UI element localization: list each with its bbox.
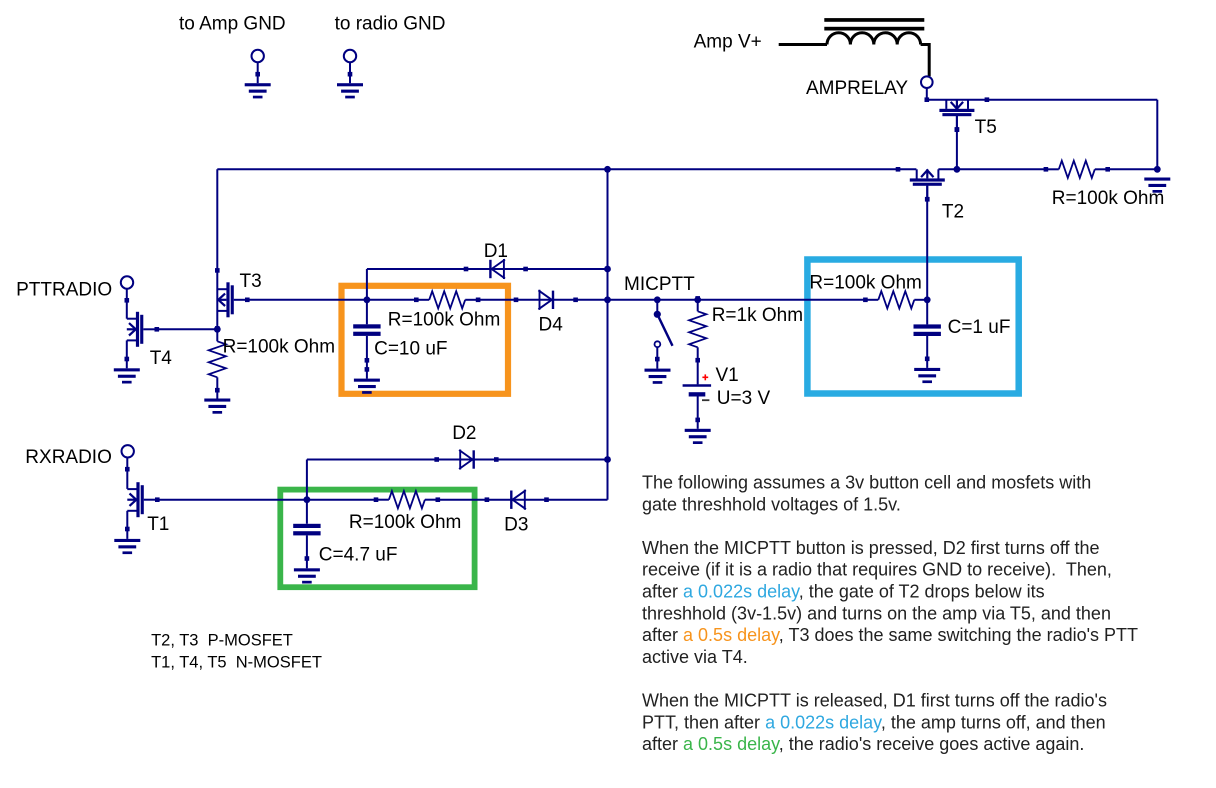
svg-text:PTTRADIO: PTTRADIO	[16, 280, 112, 301]
wire	[366, 336, 368, 379]
svg-text:D4: D4	[539, 315, 564, 336]
wire (D4 to cyan box resistor)	[576, 299, 866, 301]
node junction MICPTT row	[604, 296, 611, 303]
ground (orange box)	[354, 379, 380, 382]
wire	[478, 299, 516, 301]
pin	[896, 167, 901, 172]
wire (T2 gate down to cyan node)	[926, 186, 928, 300]
node junction switch	[654, 296, 661, 303]
svg-text:active via T4.: active via T4.	[642, 647, 748, 667]
wire	[926, 300, 928, 325]
wire (D3 to center vertical)	[547, 499, 608, 501]
transistor T5 (N-MOSFET)	[945, 100, 947, 109]
ground (cyan box)	[914, 368, 940, 371]
ground (below R)	[204, 399, 230, 402]
node RXRADIO terminal circle	[122, 445, 134, 457]
resistor R=100k Ohm (orange box)	[416, 299, 429, 301]
wire (T4 source to ground)	[126, 340, 128, 368]
svg-text:after a 0.5s delay, the radio': after a 0.5s delay, the radio's receive …	[642, 734, 1084, 754]
green highlight box around T1 RC delay (R=100k, C=4.7uF)	[280, 490, 474, 588]
node junction orange box	[364, 296, 371, 303]
wire (coil to AMPRELAY node, black)	[921, 45, 930, 77]
node junction R1k	[694, 296, 701, 303]
ground (green box)	[294, 568, 320, 571]
wire	[349, 62, 351, 83]
resistor R=100k Ohm (below T3)	[216, 328, 218, 341]
svg-text:R=100k Ohm: R=100k Ohm	[388, 310, 500, 331]
wire	[306, 535, 308, 568]
svg-text:AMPRELAY: AMPRELAY	[806, 78, 908, 99]
ground (below T4)	[114, 368, 140, 371]
wire	[926, 336, 928, 368]
ground (below battery)	[685, 429, 711, 432]
wire (D2 to center vertical)	[496, 459, 607, 461]
svg-text:C=4.7 uF: C=4.7 uF	[319, 545, 398, 566]
diode D2	[437, 459, 497, 461]
cyan highlight box around T2 RC delay (R=100k, C=1uF)	[807, 260, 1018, 394]
capacitor C=10 uF (orange box)	[353, 324, 380, 328]
wire (long rail from T3 to T2)	[217, 168, 916, 170]
svg-text:T3: T3	[240, 271, 262, 292]
svg-text:R=100k Ohm: R=100k Ohm	[349, 512, 461, 533]
wire	[216, 390, 218, 398]
wire (T1 gate to green box)	[157, 499, 375, 501]
radio GND terminal circle	[344, 50, 356, 62]
svg-text:C=10 uF: C=10 uF	[374, 339, 447, 360]
wire (D1 row left segment)	[367, 268, 466, 270]
wire	[438, 499, 486, 501]
svg-text:When the MICPTT is released, D: When the MICPTT is released, D1 first tu…	[642, 691, 1107, 711]
svg-text:after a 0.5s delay, T3 does th: after a 0.5s delay, T3 does the same swi…	[642, 625, 1138, 645]
svg-text:V1: V1	[716, 365, 739, 386]
ground (Amp GND)	[245, 83, 271, 86]
node PTTRADIO terminal circle	[121, 276, 133, 288]
ground (radio GND)	[337, 83, 363, 86]
svg-text:T5: T5	[975, 117, 997, 138]
svg-text:Amp V+: Amp V+	[694, 32, 762, 53]
svg-text:U=3 V: U=3 V	[717, 388, 771, 409]
svg-text:T2, T3 P-MOSFET: T2, T3 P-MOSFET	[151, 632, 293, 650]
relay coil L1	[827, 33, 921, 45]
transistor T2 (P-MOSFET)	[916, 169, 918, 178]
transistor T1 (N-MOSFET)	[127, 488, 136, 490]
diode D4	[516, 299, 576, 301]
svg-text:to radio GND: to radio GND	[335, 14, 446, 35]
battery minus mark	[702, 399, 709, 401]
wire	[697, 359, 699, 384]
transistor T3 (P-MOSFET)	[217, 288, 226, 290]
battery plus mark	[704, 374, 706, 380]
node junction D1 row	[604, 266, 611, 273]
node AMPRELAY terminal circle	[921, 76, 933, 88]
svg-text:R=1k Ohm: R=1k Ohm	[712, 305, 803, 326]
wire (T3 vertical rail)	[216, 169, 218, 329]
svg-text:D2: D2	[452, 423, 476, 444]
svg-text:to Amp GND: to Amp GND	[179, 14, 286, 35]
svg-text:T4: T4	[150, 348, 173, 369]
svg-text:MICPTT: MICPTT	[624, 274, 695, 295]
ground (top right)	[1144, 178, 1170, 181]
switch SW1 (MICPTT push button)	[656, 300, 658, 311]
wire (D2 row left segment)	[307, 459, 437, 461]
capacitor C=1 uF (cyan box)	[914, 324, 941, 328]
resistor R=100k Ohm (green box)	[376, 499, 389, 501]
wire	[126, 458, 128, 489]
svg-text:T1: T1	[147, 514, 169, 535]
svg-text:R=100k Ohm: R=100k Ohm	[809, 272, 921, 293]
ground (below switch)	[645, 369, 671, 372]
wire (T3 gate to orange R)	[247, 299, 416, 301]
node junction D2 row	[604, 456, 611, 463]
wire (T5 gate down to T2 drain rail)	[956, 116, 958, 169]
svg-text:after a 0.022s delay, the gate: after a 0.022s delay, the gate of T2 dro…	[642, 582, 1045, 602]
svg-text:D3: D3	[504, 515, 528, 536]
node junction center top	[604, 166, 611, 173]
ground (below T1)	[114, 539, 140, 542]
resistor R=1k Ohm	[697, 298, 699, 311]
wire	[926, 88, 928, 100]
wire (T1 source to ground)	[126, 511, 128, 539]
diode D1	[466, 268, 526, 270]
wire	[257, 62, 259, 83]
diode D3	[487, 499, 547, 501]
wire (T4 gate to T3/R junction)	[157, 328, 218, 330]
svg-text:R=100k Ohm: R=100k Ohm	[223, 337, 335, 358]
svg-text:When the MICPTT button is pres: When the MICPTT button is pressed, D2 fi…	[642, 538, 1100, 558]
resistor R=100k Ohm (pull-down, top right)	[1046, 168, 1059, 170]
wire (orange cap node up to D1 row)	[366, 269, 368, 324]
Amp GND terminal circle	[252, 50, 264, 62]
wire	[126, 289, 128, 319]
svg-text:T1, T4, T5 N-MOSFET: T1, T4, T5 N-MOSFET	[151, 653, 322, 671]
node junction below T3	[214, 326, 221, 333]
node junction cyan box	[924, 296, 931, 303]
svg-text:C=1 uF: C=1 uF	[948, 317, 1011, 338]
transistor T4 (N-MOSFET)	[127, 318, 136, 320]
node junction top right	[1154, 166, 1161, 173]
battery V1 (U=3 V)	[683, 384, 712, 386]
wire (to top-right corner)	[1156, 100, 1158, 170]
node junction T5 gate	[954, 166, 961, 173]
svg-text:PTT, then after a 0.022s delay: PTT, then after a 0.022s delay, the amp …	[642, 712, 1106, 732]
svg-text:R=100k Ohm: R=100k Ohm	[1052, 188, 1164, 209]
svg-text:receive (if it is a radio that: receive (if it is a radio that requires …	[642, 560, 1112, 580]
svg-text:The following assumes a 3v but: The following assumes a 3v button cell a…	[642, 473, 1091, 493]
capacitor C=4.7 uF (green box)	[293, 524, 320, 528]
node junction green box	[304, 496, 311, 503]
svg-text:T2: T2	[942, 202, 964, 223]
pin (T5 right terminal)	[985, 97, 990, 102]
wire	[1106, 168, 1157, 170]
wire (center vertical rail)	[607, 169, 609, 499]
svg-text:threshhold (3v-1.5v) and turns: threshhold (3v-1.5v) and turns on the am…	[642, 603, 1111, 623]
orange highlight box around T3 RC delay (R=100k, C=10uF)	[342, 286, 509, 394]
wire (green node up to D2 row)	[306, 460, 308, 524]
wire (T2 to right resistor)	[938, 168, 1047, 170]
svg-text:gate threshhold voltages of 1.: gate threshhold voltages of 1.5v.	[642, 494, 901, 514]
svg-text:D1: D1	[484, 241, 508, 262]
wire (T5 drain-source rail)	[927, 99, 1158, 101]
wire (Amp V+ feed, black)	[779, 43, 827, 46]
wire (D1 to center vertical)	[525, 268, 607, 270]
resistor R=100k Ohm (cyan box)	[865, 299, 878, 301]
svg-text:RXRADIO: RXRADIO	[25, 447, 112, 468]
